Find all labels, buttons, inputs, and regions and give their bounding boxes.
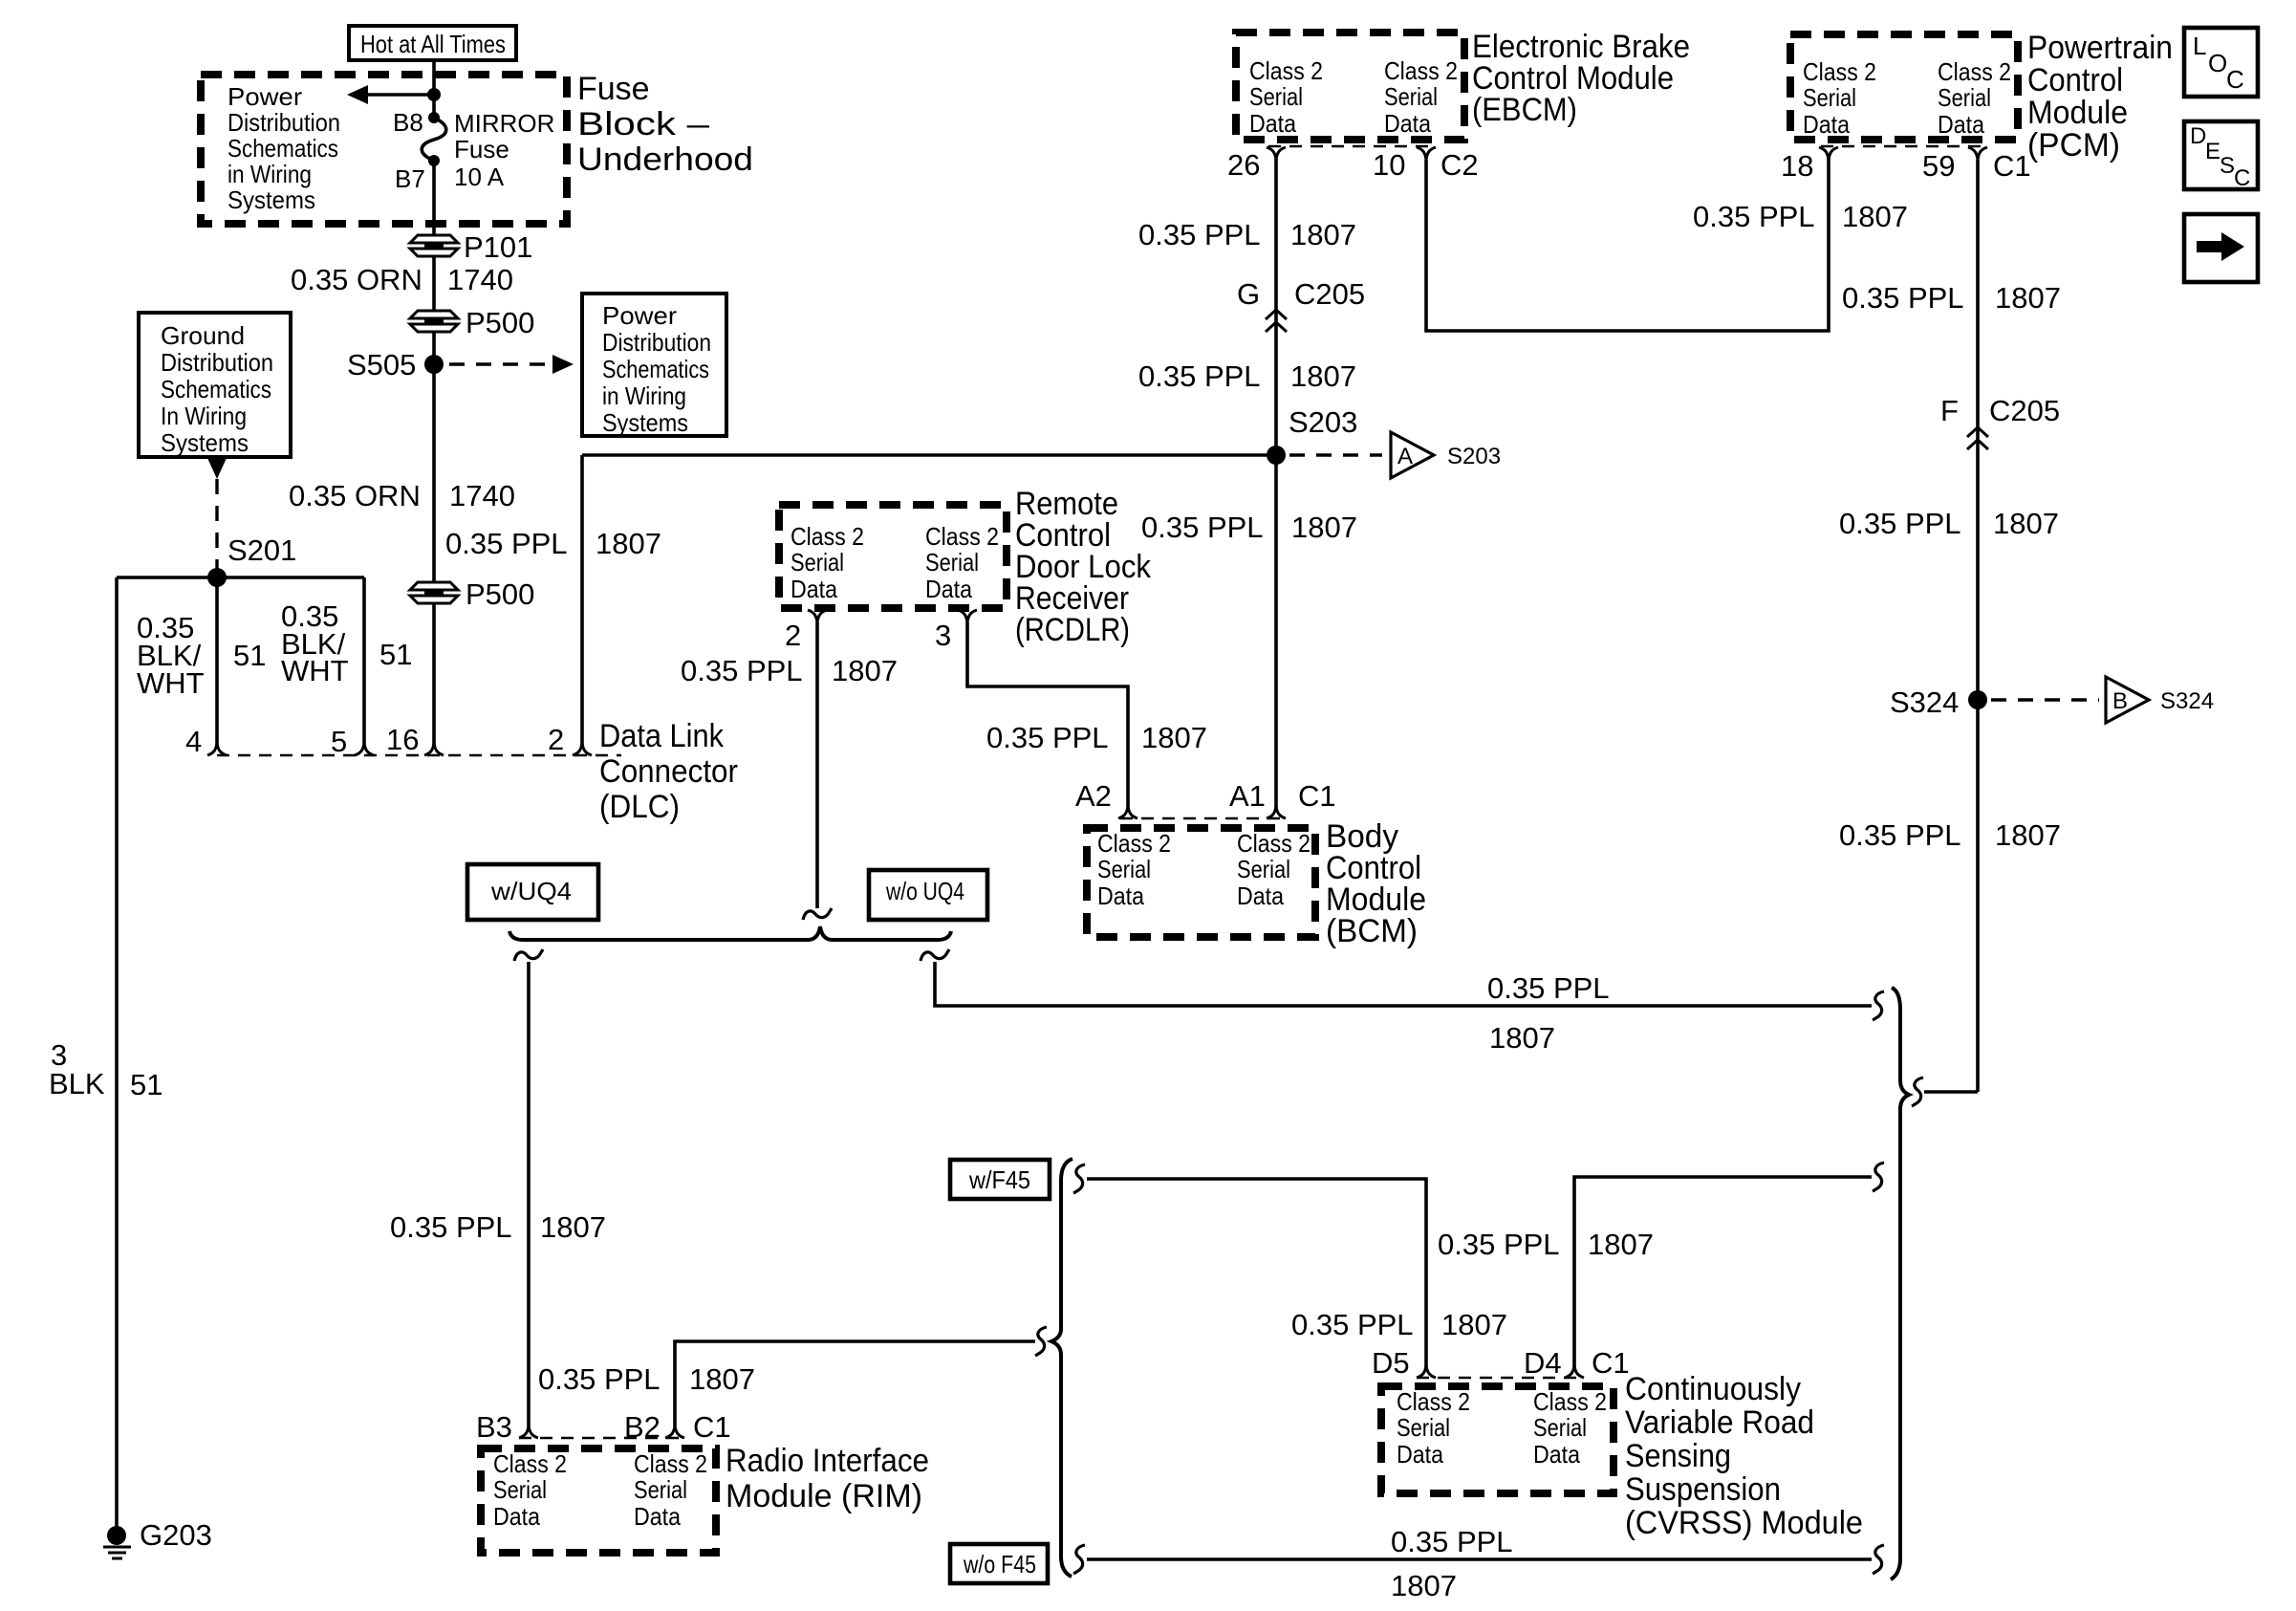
inline connector P101 — [410, 230, 532, 264]
svg-text:Underhood: Underhood — [577, 142, 753, 178]
svg-text:Power: Power — [602, 301, 677, 330]
tall option bracket right — [1891, 988, 1909, 1579]
svg-text:51: 51 — [130, 1068, 162, 1101]
svg-text:Fuse: Fuse — [454, 135, 509, 163]
svg-text:w/o F45: w/o F45 — [963, 1550, 1036, 1578]
svg-text:(RCDLR): (RCDLR) — [1015, 612, 1130, 648]
break squiggle RIM B2 wire — [1035, 1327, 1047, 1356]
svg-text:1807: 1807 — [1489, 1021, 1555, 1055]
ground distribution schematics box — [139, 313, 291, 457]
svg-text:Class 2: Class 2 — [791, 522, 864, 551]
fuse MIRROR Fuse 10 A — [422, 109, 554, 191]
svg-text:Systems: Systems — [602, 408, 688, 437]
wire RCDLR pin2 down to option brace — [815, 622, 819, 908]
svg-text:Data Link: Data Link — [599, 718, 725, 754]
svg-text:0.35 PPL: 0.35 PPL — [1438, 1228, 1560, 1261]
svg-text:Control: Control — [2027, 62, 2123, 98]
RIM pin B3 — [476, 1410, 538, 1444]
svg-text:in Wiring: in Wiring — [602, 381, 686, 410]
RCDLR class 2 serial data left — [791, 522, 864, 603]
svg-text:w/o UQ4: w/o UQ4 — [885, 877, 964, 905]
svg-text:59: 59 — [1922, 149, 1955, 183]
svg-text:Data: Data — [1237, 882, 1284, 910]
svg-text:(EBCM): (EBCM) — [1472, 92, 1577, 128]
break squiggle w/UQ4 branch — [514, 949, 543, 961]
BCM connector dashed line — [1120, 817, 1284, 819]
svg-text:(PCM): (PCM) — [2027, 127, 2120, 163]
svg-text:C205: C205 — [1294, 277, 1365, 311]
module name RCDLR — [1015, 486, 1152, 648]
svg-text:C1: C1 — [1993, 149, 2031, 183]
svg-text:L: L — [2193, 32, 2206, 60]
BCM class 2 serial data right — [1237, 829, 1310, 910]
svg-text:4: 4 — [185, 725, 202, 758]
wire ground riser to G203 — [115, 577, 119, 1528]
inline connector P500 lower — [410, 577, 534, 611]
svg-text:51: 51 — [233, 639, 266, 672]
svg-text:C: C — [2226, 65, 2244, 94]
svg-text:Serial: Serial — [925, 548, 979, 577]
svg-text:D5: D5 — [1372, 1346, 1410, 1380]
svg-text:C205: C205 — [1989, 394, 2060, 427]
PCM class 2 serial data right — [1938, 57, 2011, 139]
wire label 0.35 PPL 1807 RCDLR pin2 — [681, 654, 898, 687]
svg-text:Schematics: Schematics — [161, 375, 271, 403]
option box w/F45 — [950, 1160, 1050, 1199]
svg-text:A1: A1 — [1229, 779, 1266, 813]
DLC connector dashed line — [217, 754, 621, 756]
svg-text:Data: Data — [1097, 882, 1144, 910]
break squiggle right end w/o F45 line — [1873, 1545, 1884, 1574]
RCDLR pin 2 — [785, 610, 827, 652]
fuse block dashed box — [201, 75, 567, 224]
svg-text:A2: A2 — [1075, 779, 1112, 813]
dashed link S324 — [1991, 698, 2099, 701]
svg-text:Module (RIM): Module (RIM) — [726, 1478, 922, 1514]
module name Fuse Block - Underhood — [577, 71, 753, 178]
svg-text:0.35 PPL: 0.35 PPL — [1141, 511, 1264, 544]
svg-text:Suspension: Suspension — [1625, 1471, 1781, 1508]
wire label 0.35 PPL 1807 above S203 — [1138, 359, 1356, 393]
svg-text:Power: Power — [227, 82, 302, 111]
splice S505 — [347, 348, 444, 381]
wire label 0.35 BLK/WHT 51 left — [137, 611, 266, 700]
svg-text:0.35 PPL: 0.35 PPL — [1391, 1525, 1513, 1558]
wire EBCM pin26 to BCM A1 — [1274, 159, 1278, 808]
break squiggle PCM link — [1912, 1078, 1923, 1106]
wire from Hot at All Times into fuse block — [432, 60, 436, 118]
wire label 0.35 PPL 1807 below S324 — [1839, 818, 2061, 852]
svg-text:B7: B7 — [395, 164, 425, 193]
wire w/F45 to CVRSS D5 — [1087, 1179, 1426, 1367]
svg-text:51: 51 — [379, 638, 412, 671]
PCM pin 18 — [1781, 147, 1838, 183]
svg-text:Serial: Serial — [493, 1475, 547, 1504]
wire B7 to P101 — [432, 161, 436, 236]
svg-text:Class 2: Class 2 — [634, 1449, 707, 1478]
svg-text:Data: Data — [1803, 110, 1850, 139]
svg-text:w/F45: w/F45 — [968, 1165, 1030, 1194]
svg-text:0.35 PPL: 0.35 PPL — [1487, 971, 1610, 1005]
svg-text:B8: B8 — [393, 108, 423, 137]
svg-text:Fuse: Fuse — [577, 71, 650, 107]
RIM dashed box — [481, 1448, 716, 1553]
svg-text:Class 2: Class 2 — [1533, 1387, 1607, 1416]
svg-text:Data: Data — [925, 575, 972, 603]
BCM pin A2 — [1075, 779, 1137, 818]
svg-text:O: O — [2208, 49, 2227, 77]
svg-text:Module: Module — [2027, 95, 2128, 131]
svg-text:0.35 PPL: 0.35 PPL — [1693, 200, 1815, 233]
svg-text:Class 2: Class 2 — [493, 1449, 567, 1478]
svg-text:0.35 PPL: 0.35 PPL — [1842, 281, 1964, 315]
svg-text:1807: 1807 — [540, 1210, 606, 1244]
dashed link S203 — [1289, 453, 1382, 456]
svg-text:Serial: Serial — [634, 1475, 687, 1504]
svg-text:2: 2 — [548, 723, 564, 756]
CVRSS class 2 serial data left — [1397, 1387, 1470, 1469]
svg-text:Class 2: Class 2 — [1384, 56, 1458, 85]
svg-text:1807: 1807 — [1441, 1308, 1507, 1341]
svg-text:(DLC): (DLC) — [599, 789, 680, 825]
svg-text:Class 2: Class 2 — [1249, 56, 1323, 85]
svg-text:S201: S201 — [227, 533, 296, 567]
wire w/UQ4 branch down to RIM B3 — [527, 962, 531, 1426]
svg-text:10: 10 — [1373, 148, 1405, 182]
DLC pin 5 — [331, 725, 374, 758]
note text: Power Distribution Schematics in Wiring Systems — [227, 82, 340, 214]
CVRSS class 2 serial data right — [1533, 1387, 1607, 1469]
off-page triangle B S324 — [2106, 677, 2214, 723]
svg-text:1807: 1807 — [1291, 511, 1357, 544]
svg-text:10 A: 10 A — [454, 163, 505, 191]
svg-text:Data: Data — [634, 1502, 681, 1531]
svg-text:1807: 1807 — [1290, 218, 1356, 251]
CVRSS pin D4 — [1524, 1346, 1584, 1380]
svg-text:Systems: Systems — [161, 428, 249, 457]
option split brace — [509, 926, 951, 940]
module name Data Link Connector (DLC) — [599, 718, 738, 825]
wire to DLC pin 5 — [362, 577, 366, 746]
wire RCDLR pin3 to BCM A2 — [967, 622, 1128, 808]
wire PCM pin59 riser — [1976, 160, 1980, 1092]
svg-text:Data: Data — [493, 1502, 540, 1531]
svg-text:Data: Data — [1384, 109, 1431, 138]
ground G203 — [103, 1518, 212, 1558]
RIM class 2 serial data left — [493, 1449, 567, 1531]
svg-text:Serial: Serial — [1384, 82, 1438, 111]
inline connector P500 — [410, 306, 534, 339]
wire RIM B2 from option bracket — [675, 1341, 1035, 1426]
tall option bracket left — [1051, 1159, 1072, 1577]
svg-text:Serial: Serial — [1237, 855, 1290, 883]
svg-text:Data: Data — [1249, 109, 1296, 138]
RIM class 2 serial data right — [634, 1449, 707, 1531]
PCM pin 59 — [1922, 147, 1987, 183]
svg-text:26: 26 — [1227, 148, 1260, 182]
DLC pin 4 — [185, 725, 227, 758]
svg-text:0.35 PPL: 0.35 PPL — [681, 654, 803, 687]
junction node in fuse block — [427, 88, 441, 101]
svg-text:MIRROR: MIRROR — [454, 109, 554, 138]
RCDLR dashed box — [779, 505, 1007, 608]
svg-text:1807: 1807 — [832, 654, 898, 687]
svg-text:Serial: Serial — [1938, 83, 1991, 112]
svg-text:F: F — [1940, 394, 1959, 427]
PCM class 2 serial data left — [1803, 57, 1876, 139]
power feed tag "Hot at All Times" — [349, 26, 516, 60]
wire PCM riser foot to bracket — [1924, 1090, 1978, 1094]
svg-text:E: E — [2205, 139, 2220, 164]
module name EBCM — [1472, 29, 1690, 128]
svg-text:Data: Data — [1533, 1440, 1580, 1469]
module name CVRSS — [1625, 1371, 1863, 1541]
svg-text:(BCM): (BCM) — [1326, 913, 1418, 949]
svg-text:(CVRSS) Module: (CVRSS) Module — [1625, 1505, 1863, 1541]
svg-text:0.35 PPL: 0.35 PPL — [986, 721, 1109, 754]
break squiggle above option brace — [803, 908, 832, 920]
wire label 0.35 PPL 1807 RIM B3 — [390, 1210, 606, 1244]
svg-text:1807: 1807 — [596, 527, 661, 560]
legend box arrow — [2184, 214, 2258, 282]
svg-text:3: 3 — [935, 619, 951, 652]
EBCM dashed box — [1236, 33, 1464, 140]
break squiggle D4 line — [1873, 1163, 1884, 1191]
svg-text:Continuously: Continuously — [1625, 1371, 1801, 1407]
svg-text:0.35 PPL: 0.35 PPL — [1138, 218, 1261, 251]
option box w/o UQ4 — [869, 870, 987, 920]
svg-text:Systems: Systems — [227, 185, 315, 214]
svg-text:0.35 PPL: 0.35 PPL — [1138, 359, 1261, 393]
svg-text:Block –: Block – — [577, 106, 709, 142]
svg-text:1807: 1807 — [1290, 359, 1356, 393]
svg-text:Distribution: Distribution — [227, 108, 340, 137]
CVRSS dashed box — [1381, 1386, 1614, 1493]
inline connector F C205 — [1940, 394, 2060, 449]
wire S203 horizontal bus — [582, 453, 1276, 457]
option box w/UQ4 — [467, 864, 598, 920]
svg-text:1740: 1740 — [447, 263, 513, 296]
wire label 0.35 PPL 1807 CVRSS D4 — [1438, 1228, 1654, 1261]
svg-text:0.35 PPL: 0.35 PPL — [445, 527, 568, 560]
CVRSS pin D5 — [1372, 1346, 1436, 1380]
svg-text:BLK: BLK — [49, 1067, 105, 1100]
RCDLR pin 3 — [935, 610, 977, 652]
svg-text:1807: 1807 — [1842, 200, 1908, 233]
module name PCM — [2027, 30, 2173, 163]
EBCM pin 10 — [1373, 147, 1436, 182]
svg-text:Sensing: Sensing — [1625, 1438, 1731, 1474]
wire label 0.35 PPL 1807 above S324 — [1839, 507, 2059, 540]
wire label 0.35 PPL 1807 EBCM pin26 — [1138, 218, 1356, 251]
svg-text:Data: Data — [1397, 1440, 1443, 1469]
wire label 0.35 PPL 1807 PCM pin59 — [1842, 281, 2061, 315]
svg-text:C1: C1 — [693, 1410, 731, 1444]
svg-text:Class 2: Class 2 — [925, 522, 999, 551]
svg-text:C: C — [2234, 165, 2250, 191]
DLC pin 2 — [548, 723, 592, 756]
wire P500 to DLC pin 16 — [432, 603, 436, 746]
wire label 0.35 PPL 1807 RIM B2 — [538, 1362, 755, 1396]
svg-text:Serial: Serial — [1249, 82, 1303, 111]
splice S203 — [1267, 405, 1357, 465]
EBCM pin 26 — [1227, 147, 1286, 182]
svg-text:Connector: Connector — [599, 753, 738, 790]
RIM connector dashed line — [519, 1437, 684, 1439]
wire CVRSS D4 line — [1574, 1177, 1872, 1367]
BCM dashed box — [1087, 828, 1315, 937]
power distribution schematics box — [582, 294, 726, 437]
svg-text:B: B — [2112, 688, 2128, 714]
wire label 0.35 ORN 1740 second — [289, 479, 515, 512]
svg-text:Radio Interface: Radio Interface — [726, 1443, 929, 1479]
svg-text:w/UQ4: w/UQ4 — [490, 877, 572, 905]
node B7 — [395, 155, 440, 193]
DLC pin 16 — [386, 723, 444, 756]
svg-text:D: D — [2190, 123, 2206, 149]
svg-text:0.35 ORN: 0.35 ORN — [291, 263, 422, 296]
svg-text:5: 5 — [331, 725, 347, 758]
RCDLR class 2 serial data right — [925, 522, 999, 603]
svg-text:2: 2 — [785, 619, 801, 652]
wire label 0.35 ORN 1740 — [291, 263, 513, 296]
svg-text:S505: S505 — [347, 348, 416, 381]
svg-text:Serial: Serial — [1097, 855, 1151, 883]
svg-text:A: A — [1397, 444, 1413, 469]
module name RIM — [726, 1443, 929, 1514]
svg-text:C2: C2 — [1440, 148, 1479, 182]
wire w/o F45 long line — [1087, 1557, 1872, 1561]
svg-text:C1: C1 — [1298, 779, 1336, 813]
svg-text:0.35 ORN: 0.35 ORN — [289, 479, 421, 512]
PCM dashed box — [1790, 34, 2018, 140]
svg-text:P101: P101 — [464, 230, 532, 264]
wire label 0.35 PPL 1807 BCM A2 — [986, 721, 1207, 754]
wire label 0.35 PPL 1807 below C205 G — [1141, 511, 1357, 544]
svg-text:Serial: Serial — [1397, 1413, 1450, 1442]
CVRSS connector dashed line — [1417, 1377, 1584, 1379]
svg-text:1807: 1807 — [1993, 507, 2059, 540]
svg-text:Distribution: Distribution — [602, 328, 711, 357]
dashed arrow S505 to power distribution box — [449, 355, 574, 374]
wire label 0.35 PPL 1807 CVRSS D5 — [1291, 1308, 1507, 1341]
off-page triangle A S203 — [1391, 432, 1501, 478]
break squiggle end of BCM long wire — [1873, 991, 1884, 1020]
svg-text:G203: G203 — [140, 1518, 212, 1552]
svg-text:Class 2: Class 2 — [1938, 57, 2011, 86]
option box w/o F45 — [950, 1544, 1048, 1583]
break squiggle w/F45 line — [1073, 1165, 1085, 1193]
svg-text:C1: C1 — [1592, 1346, 1630, 1380]
svg-text:0.35 PPL: 0.35 PPL — [1839, 507, 1961, 540]
svg-text:1807: 1807 — [1588, 1228, 1654, 1261]
EBCM connector dashed line — [1268, 145, 1434, 147]
svg-text:0.35 PPL: 0.35 PPL — [390, 1210, 512, 1244]
wire w/o UQ4 branch to PCM bracket — [935, 962, 1872, 1006]
arrow to power distribution — [347, 85, 434, 104]
svg-text:P500: P500 — [466, 306, 534, 339]
svg-text:Class 2: Class 2 — [1097, 829, 1171, 858]
EBCM class 2 serial data right — [1384, 56, 1458, 138]
svg-text:0.35 PPL: 0.35 PPL — [538, 1362, 661, 1396]
svg-text:S: S — [2220, 153, 2235, 179]
PCM connector dashed line — [1821, 145, 1985, 147]
svg-text:1807: 1807 — [1995, 818, 2061, 852]
svg-text:in Wiring: in Wiring — [227, 160, 312, 188]
splice S324 — [1890, 686, 1987, 719]
svg-text:1807: 1807 — [1995, 281, 2061, 315]
wire S201 horizontal — [117, 576, 364, 579]
svg-text:Schematics: Schematics — [602, 355, 709, 383]
wire label 3 BLK 51 — [49, 1038, 162, 1101]
svg-text:P500: P500 — [466, 577, 534, 611]
splice S201 — [207, 533, 296, 587]
svg-text:Class 2: Class 2 — [1397, 1387, 1470, 1416]
svg-text:0.35 PPL: 0.35 PPL — [1291, 1308, 1414, 1341]
svg-text:S324: S324 — [1890, 686, 1959, 719]
svg-text:1807: 1807 — [689, 1362, 755, 1396]
dashed wire to S201 — [215, 479, 218, 570]
svg-text:Data: Data — [1938, 110, 1984, 139]
svg-text:Powertrain: Powertrain — [2027, 30, 2173, 66]
wire P101 to P500 — [432, 256, 436, 312]
RIM pin B2 — [624, 1410, 684, 1444]
wire DLC pin2 riser — [580, 455, 584, 746]
legend box LOC — [2184, 28, 2258, 97]
svg-text:S203: S203 — [1447, 444, 1501, 469]
BCM pin A1 — [1229, 779, 1286, 818]
svg-text:G: G — [1237, 277, 1260, 311]
svg-text:Serial: Serial — [1533, 1413, 1587, 1442]
svg-text:Hot at All Times: Hot at All Times — [360, 30, 506, 58]
wire EBCM pin10 to PCM pin18 — [1426, 154, 1829, 331]
EBCM class 2 serial data left — [1249, 56, 1323, 138]
node B8 — [393, 108, 440, 137]
svg-text:18: 18 — [1781, 149, 1813, 183]
break squiggle w/o UQ4 branch — [921, 949, 949, 961]
svg-text:16: 16 — [386, 723, 419, 756]
svg-text:D4: D4 — [1524, 1346, 1562, 1380]
svg-text:Class 2: Class 2 — [1803, 57, 1876, 86]
svg-text:Ground: Ground — [161, 321, 245, 350]
svg-text:Data: Data — [791, 575, 837, 603]
wire label 0.35 PPL 1807 PCM pin18 — [1693, 200, 1908, 233]
svg-text:1807: 1807 — [1391, 1569, 1457, 1602]
svg-text:WHT: WHT — [137, 666, 205, 700]
module name BCM — [1326, 818, 1426, 949]
wire label 0.35 BLK/WHT 51 right — [281, 599, 412, 687]
svg-text:In Wiring: In Wiring — [161, 402, 247, 430]
svg-text:WHT: WHT — [281, 654, 349, 687]
legend box DESC — [2184, 121, 2258, 191]
svg-text:Class 2: Class 2 — [1237, 829, 1310, 858]
inline connector G C205 — [1237, 277, 1365, 332]
svg-text:S203: S203 — [1289, 405, 1357, 439]
svg-text:0.35 PPL: 0.35 PPL — [1839, 818, 1961, 852]
break squiggle w/o F45 line — [1073, 1545, 1085, 1574]
svg-text:B3: B3 — [476, 1410, 512, 1444]
svg-text:Distribution: Distribution — [161, 348, 273, 377]
arrow from ground box down — [207, 458, 227, 479]
wire P500 to S505 and below — [432, 332, 436, 583]
svg-text:S324: S324 — [2160, 688, 2214, 714]
svg-text:1740: 1740 — [449, 479, 515, 512]
wire label 0.35 PPL 1807 DLC pin2 — [445, 527, 661, 560]
svg-text:Variable Road: Variable Road — [1625, 1404, 1814, 1441]
svg-text:Serial: Serial — [1803, 83, 1856, 112]
BCM class 2 serial data left — [1097, 829, 1171, 910]
svg-text:1807: 1807 — [1141, 721, 1207, 754]
